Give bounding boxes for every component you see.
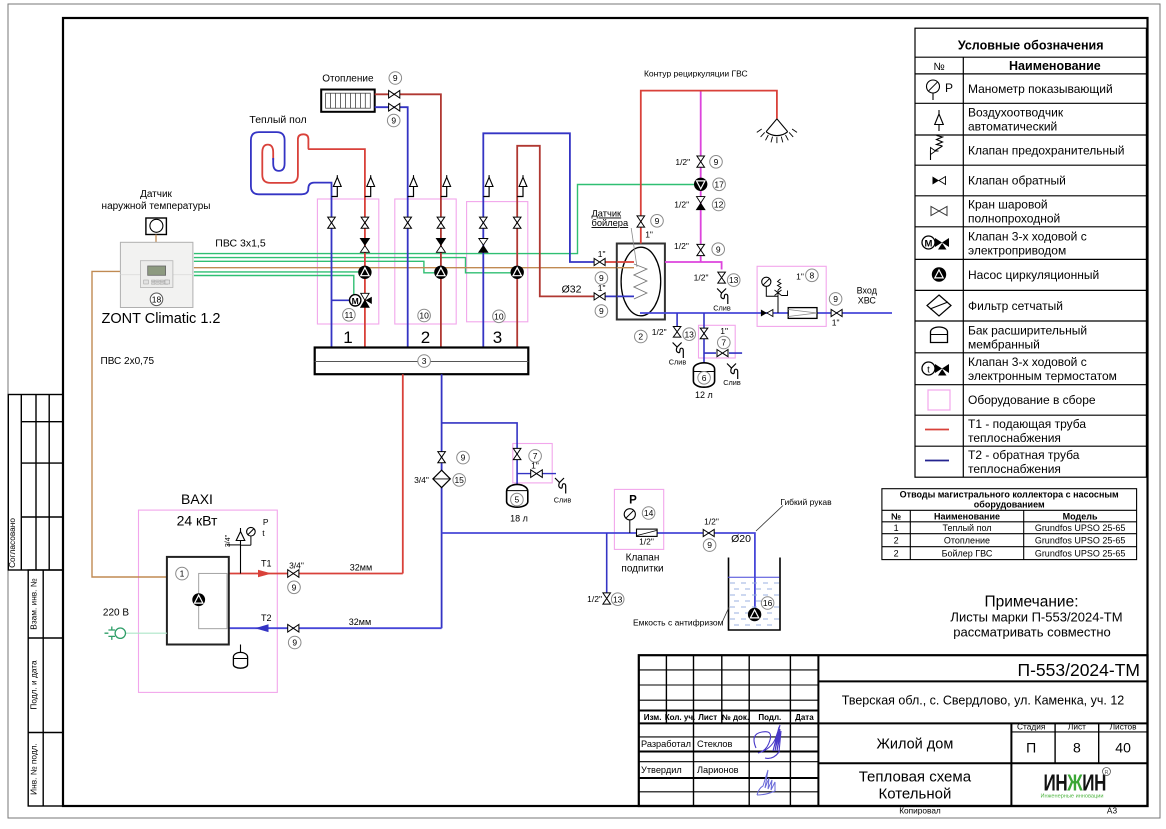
check valve on XBC: [761, 310, 767, 317]
svg-text:Воздухоотводчик: Воздухоотводчик: [968, 106, 1064, 120]
svg-text:№ док.: № док.: [722, 713, 749, 722]
svg-text:Отопление: Отопление: [322, 74, 374, 85]
air vent: [441, 187, 447, 197]
valve 13 drain under tank: [673, 327, 681, 338]
svg-text:Т2 - обратная труба: Т2 - обратная труба: [968, 448, 1080, 462]
svg-text:9: 9: [393, 73, 398, 83]
svg-text:8: 8: [810, 270, 815, 280]
svg-text:1/2": 1/2": [674, 241, 689, 251]
svg-text:1/2": 1/2": [704, 517, 719, 527]
node label 14: [642, 507, 655, 520]
node label 9: [387, 114, 400, 127]
valve 1" tank bottom: [594, 293, 605, 300]
svg-text:оборудованием: оборудованием: [974, 500, 1045, 510]
svg-text:9: 9: [707, 540, 712, 550]
svg-text:16: 16: [763, 598, 773, 608]
svg-text:1: 1: [343, 328, 352, 347]
svg-text:Клапан предохранительный: Клапан предохранительный: [968, 143, 1124, 157]
signature 2: [757, 770, 775, 795]
signature 1: [754, 725, 781, 758]
svg-text:Жилой дом: Жилой дом: [876, 737, 953, 753]
ball valve riser: [480, 217, 488, 228]
node label 6: [698, 372, 711, 385]
svg-text:Тепловая схема: Тепловая схема: [859, 769, 972, 786]
node label 12: [712, 198, 725, 211]
svg-text:40: 40: [1115, 740, 1131, 756]
svg-text:1": 1": [598, 249, 606, 259]
svg-text:9: 9: [461, 453, 466, 463]
check valve group3: [479, 239, 488, 246]
svg-text:ZONT Climatic 1.2: ZONT Climatic 1.2: [102, 311, 221, 327]
svg-text:Копировал: Копировал: [899, 806, 941, 816]
tank sensor leader: [631, 228, 637, 267]
drain branch near tank 5: [517, 473, 556, 475]
drain sliv 12l: [727, 364, 736, 369]
wire to pump 2: [194, 261, 435, 273]
svg-text:12: 12: [714, 200, 724, 210]
svg-text:Согласовано: Согласовано: [7, 518, 17, 568]
svg-text:Листы марки П-553/2024-ТМ: Листы марки П-553/2024-ТМ: [950, 610, 1122, 625]
pump group 3: [511, 266, 524, 279]
svg-text:1/2": 1/2": [694, 273, 709, 283]
air vent: [365, 187, 371, 197]
svg-text:ПВС 2х0,75: ПВС 2х0,75: [101, 356, 155, 367]
node label 7: [718, 336, 731, 349]
legend: воздухоотводчик: [935, 114, 944, 125]
svg-text:№: №: [891, 511, 901, 521]
svg-text:рассматривать совместно: рассматривать совместно: [953, 625, 1111, 640]
svg-text:15: 15: [454, 475, 464, 485]
drain valve: [531, 470, 543, 478]
ball valve riser: [513, 217, 521, 228]
svg-text:1: 1: [894, 523, 899, 533]
svg-text:3: 3: [493, 328, 502, 347]
wire to pump 1: [194, 271, 359, 273]
svg-text:12 л: 12 л: [695, 390, 713, 400]
legend: манометр: [927, 80, 940, 93]
ball valve riser: [437, 217, 445, 228]
node label 5: [511, 493, 524, 506]
svg-text:наружной температуры: наружной температуры: [102, 201, 211, 212]
svg-text:1/2": 1/2": [674, 200, 689, 210]
valve 13 drain on makeup: [603, 593, 611, 604]
wire tank bottom inlet blue: [603, 295, 633, 297]
svg-text:9: 9: [833, 294, 838, 304]
node label 2: [635, 330, 648, 343]
floor heating coil red: [262, 134, 365, 347]
svg-text:Ø32: Ø32: [562, 284, 582, 296]
wire to valve 11: [194, 276, 354, 295]
svg-text:П-553/2024-ТМ: П-553/2024-ТМ: [1018, 660, 1141, 680]
drain sliv recirc: [717, 289, 726, 294]
svg-text:Слив: Слив: [554, 496, 572, 505]
svg-text:электроприводом: электроприводом: [968, 244, 1066, 258]
valve 11: 3-way with motor M: [350, 295, 361, 306]
svg-text:Инженерные инновации: Инженерные инновации: [1041, 794, 1104, 800]
check valve group2 supply: [436, 239, 445, 246]
equipment box group 1: [317, 199, 378, 324]
svg-text:1": 1": [531, 460, 539, 470]
svg-text:1": 1": [645, 230, 653, 240]
check valve group1 supply: [360, 239, 369, 246]
svg-text:9: 9: [599, 306, 604, 316]
check valve 12: [697, 197, 705, 203]
legend: клапан 3-х ходовой с электроприводом: [922, 236, 935, 249]
pump 17: [694, 178, 707, 191]
svg-text:подпитки: подпитки: [621, 564, 663, 575]
valve 9 recirc top: [697, 156, 705, 167]
svg-text:18 л: 18 л: [510, 514, 528, 524]
svg-text:13: 13: [684, 329, 694, 339]
node label 9: [651, 215, 664, 228]
equipment box 7 (18l tank): [513, 444, 552, 483]
svg-text:9: 9: [655, 216, 660, 226]
svg-text:P: P: [263, 517, 269, 527]
svg-text:Контур рециркуляции ГВС: Контур рециркуляции ГВС: [644, 69, 748, 79]
svg-text:1": 1": [832, 317, 840, 327]
svg-text:Стеклов: Стеклов: [697, 739, 733, 749]
svg-text:3/4": 3/4": [289, 561, 304, 571]
svg-text:1": 1": [796, 272, 804, 282]
svg-text:R: R: [1105, 770, 1109, 776]
svg-text:Grundfos UPSO 25-65: Grundfos UPSO 25-65: [1035, 535, 1126, 545]
left frame attribute table: [8, 395, 62, 807]
valve on radiator return: [389, 103, 400, 111]
svg-text:М: М: [352, 296, 359, 306]
svg-text:Условные обозначения: Условные обозначения: [958, 39, 1104, 53]
wire recirculation magenta: [665, 92, 722, 270]
wire DHW supply red: [641, 91, 777, 244]
svg-text:автоматический: автоматический: [968, 120, 1057, 134]
svg-text:9: 9: [714, 157, 719, 167]
svg-text:Слив: Слив: [669, 358, 687, 367]
equipment box group 2: [395, 199, 456, 324]
svg-text:Дата: Дата: [795, 713, 814, 722]
flexible hose leader: [756, 506, 783, 532]
node label 16: [761, 597, 774, 610]
boiler instruments P t: [240, 545, 242, 574]
node label 7: [529, 450, 542, 463]
svg-text:9: 9: [292, 582, 297, 592]
node label 13: [683, 328, 696, 341]
svg-text:7: 7: [721, 338, 726, 348]
svg-text:Котельной: Котельной: [878, 786, 951, 803]
svg-text:Теплый пол: Теплый пол: [249, 114, 306, 126]
expansion tank 6 (12l): [693, 363, 714, 387]
svg-text:Гибкий рукав: Гибкий рукав: [780, 497, 832, 507]
svg-text:10: 10: [419, 311, 429, 321]
svg-text:Клапан: Клапан: [626, 553, 660, 564]
svg-text:32мм: 32мм: [350, 563, 372, 573]
label емкость: [722, 607, 729, 623]
svg-text:Тверская обл., с. Свердлово, у: Тверская обл., с. Свердлово, ул. Каменка…: [842, 694, 1125, 708]
wire T1: [229, 573, 403, 575]
svg-text:1": 1": [598, 283, 606, 293]
svg-text:Датчик: Датчик: [140, 189, 172, 200]
title block: [639, 655, 1148, 806]
svg-text:Насос циркуляционный: Насос циркуляционный: [968, 268, 1099, 282]
legend table: [915, 28, 1146, 477]
svg-text:8: 8: [1073, 740, 1081, 756]
node label 11: [343, 309, 356, 322]
node label 9: [389, 72, 402, 85]
wire to boiler (PVS 2x0.75): [92, 271, 167, 577]
node label 17: [713, 178, 726, 191]
node label 9: [829, 293, 842, 306]
svg-text:Т1 - подающая труба: Т1 - подающая труба: [968, 417, 1086, 431]
svg-text:3/4": 3/4": [414, 475, 429, 485]
svg-text:t: t: [927, 364, 930, 375]
wire group3 red to tank bottom: [517, 146, 596, 348]
branch to 12l tank: [703, 313, 705, 362]
svg-text:Емкость с антифризом: Емкость с антифризом: [633, 618, 724, 628]
svg-text:10: 10: [494, 311, 504, 321]
svg-text:теплоснабжения: теплоснабжения: [968, 431, 1061, 445]
equipment box BAXI: [139, 510, 278, 692]
ball valve riser: [404, 217, 412, 228]
svg-text:М: М: [925, 238, 933, 249]
antifreeze tank: [729, 558, 781, 631]
svg-text:18: 18: [152, 294, 162, 304]
svg-text:2: 2: [421, 328, 430, 347]
equipment box 8 (pressure group): [757, 266, 826, 326]
svg-text:Наименование: Наименование: [1009, 59, 1101, 73]
ball valve riser: [328, 217, 336, 228]
air vent: [517, 187, 523, 197]
pressure reducer: [778, 279, 782, 296]
svg-text:14: 14: [644, 508, 654, 518]
legend: Т2: [925, 460, 949, 462]
svg-text:Теплый пол: Теплый пол: [942, 523, 991, 533]
svg-text:бойлера: бойлера: [592, 218, 629, 228]
legend: бак расширительный: [931, 327, 948, 343]
node label 10: [418, 309, 431, 322]
svg-text:Grundfos UPSO 25-65: Grundfos UPSO 25-65: [1035, 548, 1126, 558]
node label 1: [176, 567, 189, 580]
svg-text:Клапан 3-х ходовой с: Клапан 3-х ходовой с: [968, 355, 1087, 369]
svg-text:Бойлер ГВС: Бойлер ГВС: [942, 548, 993, 558]
svg-text:ХВС: ХВС: [858, 296, 877, 306]
svg-text:Ø20: Ø20: [731, 533, 751, 545]
node label 9: [288, 636, 301, 649]
tank red/blue stubs inside: [617, 261, 634, 263]
legend: клапан предохранительный: [931, 136, 943, 161]
node label 9: [595, 272, 608, 285]
wire radiator supply (red): [375, 94, 441, 347]
wire PVS 3x1.5 to pump 17: [194, 185, 695, 254]
wire blue branch to valve 11: [332, 299, 350, 301]
svg-text:Вход: Вход: [857, 286, 878, 296]
valve 9 XBC inlet: [831, 309, 842, 316]
wire expansion branch: [442, 423, 517, 485]
svg-text:Слив: Слив: [723, 378, 741, 387]
valve on radiator supply: [389, 91, 400, 99]
svg-text:2: 2: [894, 548, 899, 558]
wire radiator return (blue): [375, 107, 408, 347]
valve 9 on T1 3/4": [288, 570, 299, 578]
shower: [766, 119, 788, 136]
node label 13: [611, 593, 624, 606]
valve 9 recirc bottom: [697, 244, 705, 255]
svg-text:Ларионов: Ларионов: [697, 765, 739, 775]
valve on DHW supply: [637, 216, 645, 227]
node label 8: [806, 269, 819, 282]
svg-text:Подл.: Подл.: [758, 713, 781, 722]
valve 13 on drain magenta: [718, 272, 726, 283]
drain sliv under tank: [673, 343, 682, 348]
svg-text:полнопроходной: полнопроходной: [968, 212, 1060, 226]
wire cold water XBC: [640, 312, 892, 314]
equipment box 14 (makeup valve): [614, 489, 663, 549]
legend: клапан обратный: [933, 177, 940, 185]
valve on 12l branch: [700, 328, 708, 339]
air vent: [332, 187, 338, 197]
svg-text:Лист: Лист: [698, 713, 717, 722]
svg-text:А3: А3: [1107, 806, 1118, 816]
boiler expansion vessel: [240, 645, 242, 654]
svg-text:5: 5: [515, 495, 520, 505]
valve on riser (9): [438, 452, 446, 463]
svg-text:Р: Р: [945, 81, 953, 95]
legend: насос: [932, 268, 946, 282]
svg-text:1/2": 1/2": [652, 327, 667, 337]
svg-text:П: П: [1026, 740, 1036, 756]
wire to pump 3: [194, 258, 511, 273]
wire group3 blue to tank top: [483, 133, 596, 347]
svg-text:1/2": 1/2": [675, 157, 690, 167]
node label 9: [288, 581, 301, 594]
svg-text:11: 11: [344, 310, 353, 320]
svg-text:9: 9: [599, 273, 604, 283]
svg-text:32мм: 32мм: [349, 617, 371, 627]
equipment box group 3: [467, 202, 528, 322]
legend: фильтр: [927, 295, 951, 316]
pump boiler internal: [193, 594, 205, 606]
svg-text:Модель: Модель: [1063, 511, 1098, 521]
valve 1" tank top: [594, 258, 605, 265]
svg-text:Р: Р: [629, 495, 637, 507]
pump 16: [748, 608, 761, 621]
svg-text:Клапан 3-х ходовой с: Клапан 3-х ходовой с: [968, 230, 1087, 244]
mesh filter: [788, 308, 817, 319]
svg-text:Оборудование в сборе: Оборудование в сборе: [968, 393, 1096, 407]
node label 9: [457, 451, 470, 464]
valve 7 drain 12l: [717, 350, 728, 357]
expansion tank 5 (18l): [507, 484, 528, 507]
svg-text:Подл. и дата: Подл. и дата: [29, 660, 39, 710]
svg-text:Датчик: Датчик: [592, 209, 623, 219]
wire boiler tank sensor: [194, 267, 634, 269]
filter 15: [433, 470, 450, 487]
svg-text:мембранный: мембранный: [968, 337, 1040, 351]
tank coil: [634, 264, 647, 299]
gauge in group 8: [762, 277, 771, 286]
svg-text:1": 1": [720, 326, 728, 336]
svg-text:Взам. инв. №: Взам. инв. №: [29, 578, 39, 630]
svg-text:Утвердил: Утвердил: [641, 765, 682, 775]
valve 7 on branch: [513, 448, 521, 459]
radiator: [321, 90, 375, 112]
ball valve riser: [361, 217, 369, 228]
svg-text:1/2": 1/2": [639, 537, 654, 547]
pump group 1: [359, 266, 372, 279]
node label 9: [703, 539, 716, 552]
node label 13: [727, 274, 740, 287]
svg-text:13: 13: [729, 275, 739, 285]
pump specification table: [882, 489, 1137, 560]
svg-text:теплоснабжения: теплоснабжения: [968, 462, 1061, 476]
svg-text:3/4": 3/4": [225, 534, 232, 547]
wire T2: [229, 627, 442, 629]
svg-text:17: 17: [714, 179, 724, 189]
ZONT controller: [120, 242, 192, 307]
svg-text:ИНЖИН: ИНЖИН: [1044, 771, 1107, 796]
svg-text:Листов: Листов: [1110, 722, 1138, 732]
floor heating coil blue: [251, 132, 332, 347]
equipment box 7 (12l tank): [699, 325, 736, 358]
svg-text:Клапан обратный: Клапан обратный: [968, 174, 1066, 188]
svg-text:Примечание:: Примечание:: [984, 594, 1078, 611]
svg-text:24 кВт: 24 кВт: [177, 513, 218, 529]
svg-text:Т2: Т2: [261, 613, 272, 623]
svg-text:BAXI: BAXI: [181, 491, 213, 507]
wire collector supply drop (red): [402, 374, 404, 573]
air vent: [483, 187, 489, 197]
boiler BAXI: [167, 557, 229, 645]
svg-text:9: 9: [292, 638, 297, 648]
svg-text:Т1: Т1: [261, 559, 272, 569]
svg-text:Наименование: Наименование: [934, 511, 1000, 521]
svg-text:Кол. уч.: Кол. уч.: [665, 713, 695, 722]
wire collector return riser (blue): [441, 374, 443, 628]
svg-text:Стадия: Стадия: [1017, 722, 1045, 732]
drain stub under tank: [676, 313, 678, 327]
svg-text:Фильтр сетчатый: Фильтр сетчатый: [968, 299, 1063, 313]
valve 9 on makeup: [703, 529, 714, 536]
svg-text:Изм.: Изм.: [644, 713, 662, 722]
legend: Т1: [925, 429, 949, 431]
svg-text:220 В: 220 В: [103, 608, 129, 619]
legend: клапан 3-х ходовой с термостатом: [922, 362, 935, 375]
svg-text:Отводы магистрального коллекто: Отводы магистрального коллектора с насос…: [900, 490, 1119, 500]
svg-text:13: 13: [613, 594, 623, 604]
svg-text:1: 1: [180, 569, 185, 579]
legend: оборудование в сборе: [928, 390, 950, 410]
collector (3): [315, 348, 529, 375]
svg-text:Отопление: Отопление: [944, 535, 990, 545]
legend: кран шаровой: [931, 207, 947, 216]
valve 9 on T2: [288, 624, 299, 632]
svg-text:3: 3: [422, 356, 427, 366]
svg-text:Разработал: Разработал: [641, 739, 691, 749]
svg-text:электронным термостатом: электронным термостатом: [968, 369, 1117, 383]
svg-text:1/2": 1/2": [587, 594, 602, 604]
svg-text:9: 9: [391, 116, 396, 126]
air vent: [408, 187, 414, 197]
svg-text:ПВС 3х1,5: ПВС 3х1,5: [215, 238, 266, 250]
node label 9: [595, 305, 608, 318]
svg-text:2: 2: [894, 535, 899, 545]
svg-text:Манометр показывающий: Манометр показывающий: [968, 82, 1113, 96]
node label 10: [493, 310, 506, 323]
svg-text:Кран шаровой: Кран шаровой: [968, 198, 1048, 212]
svg-text:Слив: Слив: [713, 304, 731, 313]
node label 9: [710, 156, 723, 169]
svg-text:Бак расширительный: Бак расширительный: [968, 323, 1087, 337]
node label 15: [453, 474, 466, 487]
logo: [1041, 768, 1111, 800]
wire tank top inlet red: [603, 261, 633, 263]
